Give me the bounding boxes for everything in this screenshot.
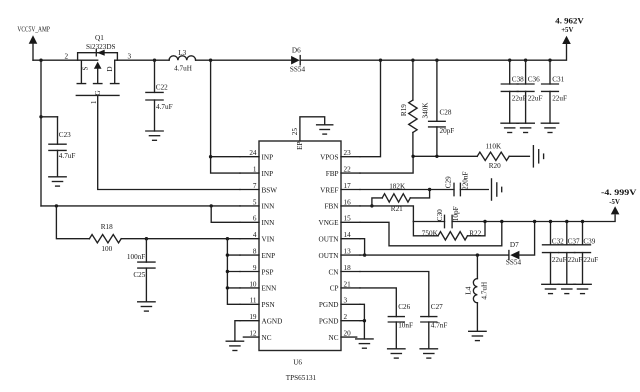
ground (PGND) (356, 339, 373, 348)
node: FBP junction (411, 155, 414, 158)
svg-text:PSN: PSN (262, 301, 276, 309)
svg-text:4.7uH: 4.7uH (480, 282, 488, 300)
node: R18 tap (55, 204, 58, 207)
svg-text:D: D (106, 66, 114, 71)
inductor L3 4.7uH (169, 49, 196, 73)
svg-text:100: 100 (101, 245, 112, 253)
IC U6 TPS65131 body (259, 141, 341, 351)
svg-text:10: 10 (249, 280, 257, 288)
pin 20 NC (right) (329, 330, 357, 342)
svg-text:22: 22 (344, 166, 352, 174)
pin 9 PSP (left) (240, 264, 274, 276)
node: OUTN join (363, 253, 366, 256)
svg-text:13: 13 (344, 248, 352, 256)
svg-text:12: 12 (249, 330, 257, 338)
pin 15 VNGE (right) (319, 215, 360, 227)
capacitor C36 22uF (517, 60, 542, 123)
wire: VIN line (121, 238, 240, 240)
capacitor C25 100nF (127, 239, 155, 302)
ground (AGND) (226, 341, 243, 350)
node: C37 tap (565, 220, 568, 223)
svg-text:TPS65131: TPS65131 (286, 374, 317, 382)
svg-text:100nF: 100nF (127, 253, 145, 261)
svg-text:R18: R18 (101, 223, 113, 231)
svg-text:22uF: 22uF (583, 256, 598, 264)
pin 8 ENP (left) (240, 248, 275, 260)
svg-text:ENN: ENN (262, 285, 278, 293)
svg-text:4.7uH: 4.7uH (174, 65, 192, 73)
capacitor C27 4.7nF (421, 303, 448, 349)
wire: ENP/PSP/ENN/PSN bus (227, 239, 240, 305)
pin 10 ENN (left) (240, 280, 277, 292)
ground (C25) (138, 302, 155, 311)
svg-text:21: 21 (344, 280, 352, 288)
svg-text:19: 19 (249, 313, 257, 321)
node: VCC branch (39, 59, 42, 62)
power flag VCC5V_AMP (17, 26, 50, 61)
svg-text:R22: R22 (469, 229, 481, 237)
svg-text:FBN: FBN (325, 203, 340, 211)
svg-text:PGND: PGND (319, 301, 339, 309)
svg-text:2: 2 (344, 313, 348, 321)
svg-text:5: 5 (253, 198, 257, 206)
svg-text:7: 7 (253, 182, 257, 190)
node: R22 right on -5V line (483, 220, 486, 223)
ground (C23) (49, 177, 66, 186)
svg-text:14: 14 (344, 231, 352, 239)
wire: -5V line (413, 215, 615, 222)
svg-text:25: 25 (291, 128, 299, 136)
capacitor C30 10pF (inline) (436, 206, 460, 227)
svg-text:FBP: FBP (326, 170, 339, 178)
ground (EP) (317, 125, 333, 134)
wire: VCC rail to Q1 (33, 59, 98, 61)
svg-text:VIN: VIN (262, 236, 276, 244)
capacitor C37 22uF (559, 222, 583, 285)
node: VPOS riser (379, 59, 382, 62)
capacitor C28 20pF (429, 60, 455, 156)
svg-text:C26: C26 (398, 303, 410, 311)
wire: OUTN line (360, 254, 509, 256)
svg-text:24: 24 (249, 149, 257, 157)
svg-text:ENP: ENP (262, 252, 276, 260)
pin 5 INN (left) (240, 198, 275, 210)
svg-text:22uF: 22uF (512, 94, 527, 102)
node: D7 junction (533, 220, 536, 223)
capacitor C39 22uF (575, 222, 599, 285)
svg-text:15: 15 (344, 215, 352, 223)
power flag +5V (4.962V) (555, 16, 584, 44)
node: C28 top (435, 59, 438, 62)
svg-text:NC: NC (262, 334, 272, 342)
svg-text:20: 20 (344, 330, 352, 338)
svg-text:PSP: PSP (262, 268, 274, 276)
svg-text:C29: C29 (445, 176, 453, 188)
diode D7 SS54 (506, 241, 522, 267)
svg-text:AGND: AGND (262, 318, 283, 326)
pin 3 PGND (right) (319, 297, 360, 309)
svg-text:PGND: PGND (319, 318, 339, 326)
wire: FBN to divider (360, 206, 413, 222)
ground (C31) (541, 123, 558, 132)
wire: CP to C26 (360, 288, 396, 317)
capacitor C38 22uF (501, 60, 526, 123)
wire: FBP node (360, 156, 529, 173)
svg-text:-5V: -5V (609, 199, 620, 206)
node: ENN tap (226, 286, 229, 289)
node: C28 bottom (435, 155, 438, 158)
diode D6 SS54 (290, 47, 306, 74)
ground (L4) (469, 331, 486, 340)
pin 11 PSN (left) (240, 297, 275, 309)
svg-text:3: 3 (128, 53, 132, 61)
svg-text:CP: CP (330, 285, 339, 293)
node: PSP tap (226, 270, 229, 273)
resistor R18 100 (56, 206, 121, 253)
svg-text:VPOS: VPOS (320, 154, 338, 162)
svg-text:20pF: 20pF (440, 127, 455, 135)
node: VNGE junction (500, 220, 503, 223)
pin 22 FBP (right) (326, 166, 360, 178)
svg-text:INN: INN (262, 219, 276, 227)
ground (C27) (420, 349, 437, 358)
pin 21 CP (right) (330, 280, 360, 292)
pin 16 FBN (right) (325, 198, 360, 210)
svg-text:1: 1 (90, 100, 98, 104)
capacitor C26 10nF (388, 303, 413, 349)
svg-text:OUTN: OUTN (319, 252, 340, 260)
resistor R21 182K (372, 183, 430, 213)
svg-text:Si2323DS: Si2323DS (86, 43, 116, 51)
svg-text:OUTN: OUTN (319, 236, 340, 244)
wire: CN to C27 (360, 272, 429, 317)
svg-text:BSW: BSW (262, 186, 278, 194)
svg-text:+5V: +5V (561, 27, 573, 34)
node: L4 tap (476, 253, 479, 256)
svg-text:8: 8 (253, 248, 257, 256)
node: C32 tap (549, 220, 552, 223)
svg-text:4. 962V: 4. 962V (555, 16, 584, 26)
svg-text:INP: INP (262, 154, 274, 162)
ground (C26) (388, 349, 405, 358)
node: R21 left on FBN (370, 204, 373, 207)
svg-text:INP: INP (262, 170, 274, 178)
svg-text:INN: INN (262, 203, 276, 211)
wire: Q1 gate to BSW (98, 95, 240, 189)
wire: INN bus (41, 205, 240, 207)
pin 6 INN (left) (240, 215, 275, 227)
resistor R22 750K (413, 222, 485, 241)
node: enable bus tap (226, 237, 229, 240)
node: switch node tap (209, 59, 212, 62)
pin 13 OUTN (right) (319, 248, 360, 260)
svg-text:L4: L4 (465, 286, 473, 294)
capacitor C22 4.7uF (146, 60, 173, 131)
pin 1 INP (left) (240, 166, 273, 178)
svg-text:NC: NC (329, 334, 339, 342)
svg-text:750K: 750K (422, 229, 439, 237)
svg-text:4.7uF: 4.7uF (156, 103, 173, 111)
svg-text:6: 6 (253, 215, 257, 223)
svg-text:C36: C36 (528, 76, 540, 84)
svg-text:C23: C23 (59, 131, 71, 139)
svg-text:22uF: 22uF (552, 94, 567, 102)
wire: VCC down to INN (40, 60, 42, 206)
pin 23 VPOS (right) (320, 149, 360, 161)
ground (sideways, C29) (492, 179, 502, 200)
wire: VPOS to +5V rail (360, 60, 381, 157)
node: PGND join (363, 319, 366, 322)
svg-text:S: S (81, 67, 89, 71)
svg-text:4.7nF: 4.7nF (431, 322, 448, 330)
svg-text:Q1: Q1 (95, 34, 104, 42)
svg-text:110K: 110K (485, 142, 502, 150)
node: INP tee (209, 155, 212, 158)
wire: Q1 drain to L3 (115, 59, 169, 61)
node: ENP tap (226, 253, 229, 256)
svg-text:1: 1 (253, 166, 257, 174)
wire: D7 to -5V line (519, 222, 534, 256)
pin 2 PGND (right) (319, 313, 360, 325)
inductor L4 4.7uH (465, 255, 489, 331)
wire: +5V rail (300, 44, 566, 60)
wire: OUTN pin14 link (360, 239, 365, 255)
svg-text:C28: C28 (440, 108, 452, 116)
node: C38 top (508, 59, 511, 62)
ground (C36) (517, 123, 534, 132)
capacitor C32 22uF (543, 222, 567, 285)
svg-text:R19: R19 (400, 104, 408, 116)
pin 17 VREF (right) (320, 182, 360, 194)
svg-text:SS54: SS54 (290, 66, 306, 74)
svg-text:VCC5V_AMP: VCC5V_AMP (17, 26, 50, 34)
svg-text:C22: C22 (156, 84, 168, 92)
resistor R20 110K (477, 142, 509, 170)
svg-text:D7: D7 (510, 241, 519, 249)
svg-text:2: 2 (65, 53, 69, 61)
node: C23 tap (39, 115, 42, 118)
svg-text:C39: C39 (583, 237, 595, 245)
node: C25 tap (145, 237, 148, 240)
svg-text:220nF: 220nF (462, 172, 470, 190)
svg-text:VREF: VREF (320, 186, 338, 194)
svg-text:10nF: 10nF (398, 322, 413, 330)
power flag -5V (-4.999V) (601, 187, 637, 214)
svg-text:4.7uF: 4.7uF (59, 152, 76, 160)
pin 25 EP with ground (291, 117, 325, 150)
svg-text:16: 16 (344, 198, 352, 206)
wire: INN to pin 6 (211, 206, 240, 222)
pin 12 NC (left) (243, 330, 271, 342)
pin 14 OUTN (right) (319, 231, 360, 243)
wire: stub to C23 (41, 116, 58, 118)
svg-text:C25: C25 (133, 271, 145, 279)
svg-text:CN: CN (329, 268, 340, 276)
wire: AGND to ground (235, 321, 240, 342)
svg-text:17: 17 (344, 182, 352, 190)
svg-text:-4. 999V: -4. 999V (601, 187, 637, 197)
svg-text:U6: U6 (293, 359, 302, 367)
ground (C22) (146, 131, 163, 140)
svg-text:C30: C30 (436, 209, 444, 221)
pin 7 BSW (left) (240, 182, 277, 194)
node: R19 top (411, 59, 414, 62)
svg-text:R20: R20 (489, 162, 501, 170)
ground (sideways, R20) (533, 146, 543, 167)
svg-text:G: G (94, 90, 102, 95)
node: C39 tap (581, 220, 584, 223)
svg-text:23: 23 (344, 149, 352, 157)
ground (C37) (558, 284, 575, 293)
node: C22 tap (153, 59, 156, 62)
wire: C29 to ground (460, 189, 488, 191)
svg-text:11: 11 (250, 297, 257, 305)
svg-text:10pF: 10pF (452, 206, 460, 221)
pin 18 CN (right) (329, 264, 361, 276)
pin 19 AGND (left) (240, 313, 282, 325)
ground (C38) (501, 123, 518, 132)
wire: switch node to INP (211, 60, 240, 173)
svg-text:22uF: 22uF (568, 256, 583, 264)
wire: PGND to ground (360, 304, 364, 339)
svg-text:3: 3 (344, 297, 348, 305)
svg-text:4: 4 (253, 231, 257, 239)
node: C31 top (548, 59, 551, 62)
capacitor C31 22uF (542, 60, 567, 123)
ground (C39) (574, 284, 591, 293)
capacitor C29 220nF (445, 172, 470, 196)
svg-text:L3: L3 (178, 49, 186, 57)
wire: L3 to D6 (196, 59, 292, 61)
pin 4 VIN (left) (240, 231, 275, 243)
wire: VREF to C29 (360, 189, 454, 191)
resistor R19 340K (400, 60, 430, 156)
svg-text:C31: C31 (552, 76, 564, 84)
node: C36 top (524, 59, 527, 62)
svg-text:VNGE: VNGE (319, 219, 340, 227)
capacitor C23 4.7uF (49, 117, 75, 177)
svg-text:EP: EP (296, 142, 304, 150)
pin 24 INP (left) (240, 149, 273, 161)
svg-text:C27: C27 (431, 303, 443, 311)
transistor Q1 Si2323DS (P-MOSFET) (65, 34, 132, 104)
ground (C32) (542, 284, 559, 293)
wire: VNGE to -5V line (360, 222, 502, 246)
node: R21 right on VREF (428, 188, 431, 191)
svg-text:SS54: SS54 (506, 258, 522, 266)
node: INN pin6 tee (210, 204, 213, 207)
svg-text:22uF: 22uF (552, 256, 567, 264)
svg-text:18: 18 (344, 264, 352, 272)
svg-text:9: 9 (253, 264, 257, 272)
svg-text:340K: 340K (421, 102, 429, 119)
svg-text:22uF: 22uF (528, 94, 543, 102)
svg-text:C38: C38 (512, 76, 524, 84)
svg-text:D6: D6 (292, 47, 301, 55)
